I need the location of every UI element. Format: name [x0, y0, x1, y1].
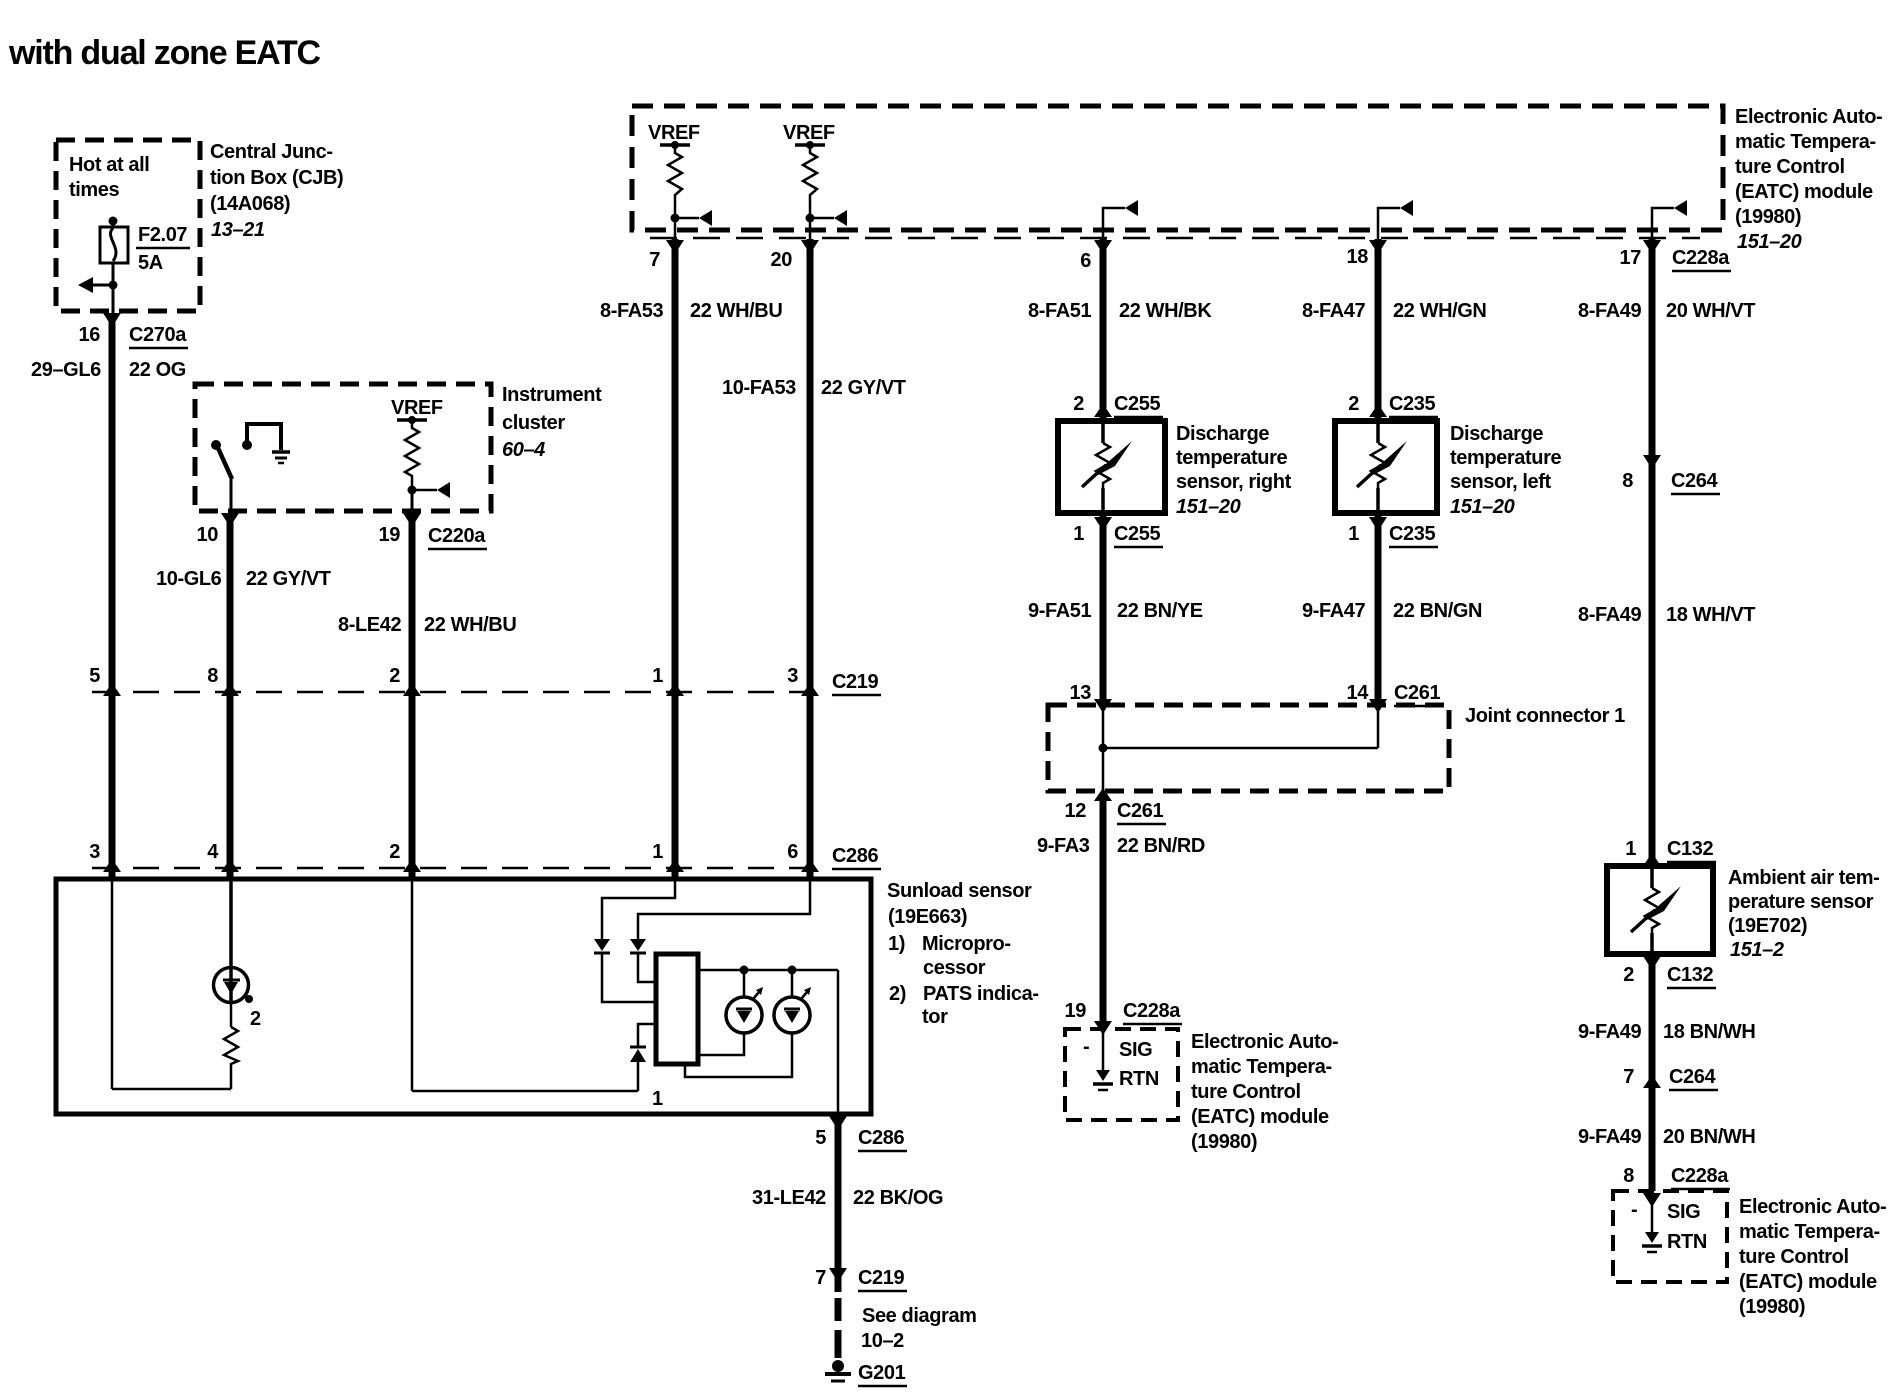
svg-text:5: 5	[89, 665, 100, 687]
svg-text:31-LE42: 31-LE42	[752, 1187, 826, 1209]
connector C255 pin 2	[1073, 393, 1163, 417]
svg-text:8-FA51: 8-FA51	[1028, 300, 1091, 322]
svg-text:7: 7	[649, 249, 660, 271]
svg-text:3: 3	[89, 841, 100, 863]
photodiode in sunload sensor	[214, 881, 262, 1030]
wire label 9-FA51 22 BN/YE	[1028, 600, 1203, 622]
svg-text:C261: C261	[1394, 682, 1440, 704]
svg-text:C132: C132	[1667, 838, 1713, 860]
wire 8-LE42 from VREF resistor	[403, 490, 421, 879]
wire 8-FA53 pin 7	[649, 218, 684, 879]
LED 2 (PATS indicator)	[685, 970, 811, 1077]
wires inside joint connector 1	[1099, 707, 1379, 791]
Sunload sensor label	[887, 880, 1039, 1028]
connector C264 pin 8	[1622, 455, 1720, 494]
connector C132 pin 1	[1625, 838, 1716, 866]
EATC pin 17 branch arrow	[1652, 200, 1687, 240]
LED supply rail	[698, 966, 838, 975]
svg-text:60–4: 60–4	[502, 439, 545, 461]
wire label 8-FA51 22 WH/BK	[1028, 300, 1212, 322]
connector C270a pin 16	[79, 324, 188, 348]
svg-text:13–21: 13–21	[211, 219, 265, 241]
resistor in sunload sensor	[224, 1002, 238, 1089]
microprocessor box	[652, 954, 698, 1110]
svg-text:10-GL6: 10-GL6	[156, 568, 222, 590]
svg-text:(EATC) module: (EATC) module	[1191, 1106, 1329, 1128]
Instrument cluster label	[502, 384, 602, 461]
wire 9-FA51	[1100, 515, 1107, 705]
connector C219 dashed line	[92, 671, 881, 695]
EATC module SIG RTN box (right)	[1613, 1191, 1727, 1282]
Discharge temperature sensor right box	[1058, 421, 1165, 513]
svg-text:perature sensor: perature sensor	[1728, 891, 1874, 913]
svg-text:tion Box (CJB): tion Box (CJB)	[210, 167, 343, 189]
svg-text:Hot at all: Hot at all	[69, 154, 149, 176]
svg-text:C255: C255	[1114, 393, 1160, 415]
svg-text:151–2: 151–2	[1730, 939, 1784, 961]
wire label 9-FA49 20 BN/WH	[1578, 1126, 1755, 1148]
svg-text:Electronic Auto-: Electronic Auto-	[1739, 1196, 1886, 1218]
svg-text:18: 18	[1347, 246, 1369, 268]
connector C261 pin 14	[1347, 682, 1443, 713]
svg-text:1: 1	[652, 1088, 663, 1110]
svg-text:10: 10	[197, 524, 219, 546]
svg-text:sensor, left: sensor, left	[1450, 471, 1552, 493]
connector C220a pins 10 and 19	[197, 524, 487, 549]
VREF resistor for pin 20	[783, 122, 847, 226]
svg-text:G201: G201	[858, 1362, 906, 1384]
svg-text:9-FA49: 9-FA49	[1578, 1126, 1641, 1148]
svg-text:22 BN/GN: 22 BN/GN	[1393, 600, 1482, 622]
svg-text:cluster: cluster	[502, 412, 565, 434]
wire 8-FA51 pin 6	[1080, 239, 1112, 421]
svg-text:Electronic Auto-: Electronic Auto-	[1191, 1031, 1338, 1053]
diode D2	[630, 939, 656, 982]
wire label 8-FA53 22 WH/BU	[600, 300, 782, 322]
connector C132 pin 2	[1623, 956, 1716, 988]
svg-text:8-LE42: 8-LE42	[338, 614, 401, 636]
svg-text:C132: C132	[1667, 964, 1713, 986]
svg-text:Electronic Auto-: Electronic Auto-	[1735, 106, 1882, 128]
signal return ground (center)	[1093, 1031, 1113, 1090]
wire 29-GL6 from CJB	[103, 285, 121, 879]
wire 9-FA47	[1375, 515, 1382, 705]
svg-text:C270a: C270a	[129, 324, 187, 346]
wire label 8-FA49 20 WH/VT	[1578, 300, 1755, 322]
wire label 31-LE42 22 BK/OG	[752, 1187, 943, 1209]
svg-text:9-FA49: 9-FA49	[1578, 1021, 1641, 1043]
svg-text:6: 6	[787, 841, 798, 863]
svg-text:13: 13	[1070, 682, 1092, 704]
dashed wire to other diagram	[838, 1272, 977, 1358]
svg-text:151–20: 151–20	[1450, 496, 1515, 518]
wire 8-FA49 pin 17	[1620, 239, 1661, 866]
connector C286 dashed line	[92, 845, 881, 869]
svg-text:2: 2	[1348, 393, 1359, 415]
Ambient air temperature sensor label	[1728, 867, 1879, 961]
svg-text:See diagram: See diagram	[862, 1305, 977, 1327]
svg-text:8: 8	[207, 665, 218, 687]
svg-text:1): 1)	[888, 933, 905, 955]
wire inside sunload from pin 1	[602, 881, 675, 939]
svg-text:8-FA47: 8-FA47	[1302, 300, 1365, 322]
VREF resistor for pin 7	[648, 122, 712, 226]
svg-text:(19E702): (19E702)	[1728, 915, 1807, 937]
svg-text:20: 20	[771, 249, 793, 271]
svg-text:2: 2	[389, 841, 400, 863]
diode D1	[594, 939, 656, 1002]
svg-text:1: 1	[1625, 838, 1636, 860]
svg-text:1: 1	[1348, 523, 1359, 545]
connector C228a pin 8	[1623, 1165, 1730, 1207]
svg-text:7: 7	[1623, 1066, 1634, 1088]
Joint connector 1 dashed box	[1048, 705, 1625, 791]
CJB output arrow to other circuits	[78, 277, 118, 293]
CJB label	[210, 141, 343, 241]
svg-text:2: 2	[389, 665, 400, 687]
svg-text:tor: tor	[922, 1006, 948, 1028]
EATC pin 6 branch arrow	[1103, 200, 1138, 240]
connector C264 pin 7	[1623, 1066, 1718, 1090]
svg-text:5: 5	[815, 1127, 826, 1149]
svg-text:F2.07: F2.07	[138, 224, 187, 246]
Central Junction Box (CJB) dashed box	[56, 140, 200, 311]
svg-text:Ambient air tem-: Ambient air tem-	[1728, 867, 1879, 889]
svg-text:12: 12	[1065, 800, 1087, 822]
svg-text:C261: C261	[1117, 800, 1163, 822]
svg-text:matic Tempera-: matic Tempera-	[1735, 131, 1876, 153]
svg-text:22 BN/RD: 22 BN/RD	[1117, 835, 1205, 857]
VREF resistor in instrument cluster	[391, 397, 450, 498]
EATC module label (center bottom)	[1191, 1031, 1338, 1153]
Instrument cluster dashed box	[195, 384, 491, 511]
svg-text:Joint connector 1: Joint connector 1	[1465, 705, 1625, 727]
svg-text:cessor: cessor	[923, 957, 986, 979]
wire 8-FA47 pin 18	[1347, 239, 1387, 421]
svg-text:9-FA51: 9-FA51	[1028, 600, 1091, 622]
svg-text:SIG: SIG	[1667, 1201, 1700, 1223]
svg-text:19: 19	[1065, 1000, 1087, 1022]
EATC module label (top right)	[1735, 106, 1882, 253]
svg-text:C235: C235	[1389, 393, 1435, 415]
Ambient air temperature sensor box	[1607, 866, 1713, 954]
C286 pin numbers 3 4 2 1 6	[89, 841, 798, 863]
svg-text:22 WH/BU: 22 WH/BU	[424, 614, 516, 636]
svg-text:-: -	[1083, 1036, 1089, 1058]
connector C235 pin 2	[1348, 393, 1438, 417]
svg-text:C219: C219	[858, 1267, 904, 1289]
svg-text:22 BN/YE: 22 BN/YE	[1117, 600, 1203, 622]
svg-text:2: 2	[1623, 964, 1634, 986]
connector C228a pin 19	[1065, 1000, 1182, 1035]
connector C261 pin 13	[1070, 682, 1112, 713]
svg-text:times: times	[69, 179, 120, 201]
svg-text:6: 6	[1080, 250, 1091, 272]
svg-text:PATS indica-: PATS indica-	[923, 983, 1039, 1005]
thermistor (discharge right)	[1082, 424, 1132, 510]
svg-text:C286: C286	[832, 845, 878, 867]
svg-text:17: 17	[1620, 247, 1642, 269]
connector C235 pin 1	[1348, 517, 1438, 547]
Sunload sensor box	[56, 879, 871, 1114]
wire inside sunload from pin 2 (8-LE42)	[412, 881, 638, 1091]
svg-text:(19980): (19980)	[1735, 206, 1801, 228]
svg-text:5A: 5A	[138, 252, 163, 274]
Discharge temperature sensor left label	[1450, 423, 1561, 518]
svg-text:4: 4	[207, 841, 219, 863]
svg-text:(14A068): (14A068)	[210, 193, 290, 215]
svg-text:10-FA53: 10-FA53	[722, 377, 796, 399]
svg-text:22 WH/GN: 22 WH/GN	[1393, 300, 1486, 322]
svg-text:Discharge: Discharge	[1450, 423, 1543, 445]
svg-text:C264: C264	[1671, 470, 1718, 492]
wire label 29-GL6 22 OG	[31, 359, 186, 381]
svg-text:9-FA47: 9-FA47	[1302, 600, 1365, 622]
svg-text:1: 1	[652, 841, 663, 863]
svg-text:Central Junc-: Central Junc-	[210, 141, 333, 163]
EATC module label (bottom right)	[1739, 1196, 1886, 1318]
wire label 8-FA49 18 WH/VT	[1578, 604, 1755, 626]
svg-text:16: 16	[79, 324, 101, 346]
svg-text:temperature: temperature	[1450, 447, 1561, 469]
svg-text:(19E663): (19E663)	[888, 906, 967, 928]
connector C228a dashed line (top)	[650, 237, 1700, 240]
svg-text:ture Control: ture Control	[1735, 156, 1845, 178]
svg-text:with dual zone EATC: with dual zone EATC	[8, 34, 321, 72]
wire label 9-FA49 18 BN/WH	[1578, 1021, 1755, 1043]
wire label 10-FA53 22 GY/VT	[722, 377, 906, 399]
diode D3	[630, 1024, 656, 1091]
svg-text:(19980): (19980)	[1739, 1296, 1805, 1318]
thermistor (ambient)	[1631, 869, 1681, 951]
svg-text:7: 7	[815, 1267, 826, 1289]
svg-text:9-FA3: 9-FA3	[1037, 835, 1090, 857]
svg-text:Instrument: Instrument	[502, 384, 602, 406]
svg-text:10–2: 10–2	[861, 1330, 904, 1352]
Discharge temperature sensor left box	[1335, 421, 1437, 513]
output wire to pin 5 C286 inside box	[837, 970, 840, 1114]
svg-text:2: 2	[250, 1008, 261, 1030]
connector C219 pin 7	[815, 1267, 907, 1291]
wire inside sunload from pin 3	[112, 881, 231, 1089]
signal return ground (right)	[1642, 1195, 1662, 1252]
svg-text:22 OG: 22 OG	[129, 359, 186, 381]
svg-text:18 BN/WH: 18 BN/WH	[1663, 1021, 1755, 1043]
svg-text:C228a: C228a	[1672, 247, 1730, 269]
svg-text:C220a: C220a	[428, 525, 486, 547]
svg-text:VREF: VREF	[783, 122, 835, 144]
wire 10-GL6 from switch	[221, 478, 239, 879]
svg-text:C228a: C228a	[1671, 1165, 1729, 1187]
switch in instrument cluster	[211, 422, 290, 479]
svg-text:C219: C219	[832, 671, 878, 693]
svg-text:Micropro-: Micropro-	[922, 933, 1011, 955]
wire label 8-LE42 22 WH/BU	[338, 614, 516, 636]
svg-text:C235: C235	[1389, 523, 1435, 545]
LED 1 (PATS indicator)	[698, 970, 763, 1055]
wire 31-LE42 below sunload box	[829, 1114, 847, 1272]
svg-text:(19980): (19980)	[1191, 1131, 1257, 1153]
svg-text:VREF: VREF	[648, 122, 700, 144]
svg-text:Discharge: Discharge	[1176, 423, 1269, 445]
EATC module dashed box (top)	[632, 106, 1723, 230]
svg-text:RTN: RTN	[1667, 1231, 1707, 1253]
svg-text:2: 2	[1073, 393, 1084, 415]
svg-text:22 GY/VT: 22 GY/VT	[821, 377, 906, 399]
svg-text:temperature: temperature	[1176, 447, 1287, 469]
connector C286 pin 5	[815, 1127, 907, 1151]
svg-text:C264: C264	[1669, 1066, 1716, 1088]
svg-text:-: -	[1631, 1199, 1637, 1221]
svg-text:RTN: RTN	[1119, 1068, 1159, 1090]
thermistor (discharge left)	[1357, 424, 1407, 510]
EATC pin 18 branch arrow	[1378, 200, 1413, 240]
wire label 10-GL6 22 GY/VT	[156, 568, 331, 590]
svg-text:VREF: VREF	[391, 397, 443, 419]
svg-text:(EATC) module: (EATC) module	[1735, 181, 1873, 203]
C286 wire junction chevrons	[103, 859, 819, 872]
svg-text:22 WH/BK: 22 WH/BK	[1119, 300, 1212, 322]
wire inside sunload from pin 6	[638, 881, 810, 939]
svg-text:ture Control: ture Control	[1739, 1246, 1849, 1268]
C219 pin numbers 5 8 2 1 3	[89, 665, 798, 687]
svg-text:151–20: 151–20	[1737, 231, 1802, 253]
svg-text:SIG: SIG	[1119, 1039, 1152, 1061]
svg-text:C228a: C228a	[1123, 1000, 1181, 1022]
svg-text:22 GY/VT: 22 GY/VT	[246, 568, 331, 590]
wire 9-FA3 22 BN/RD	[1037, 793, 1205, 1029]
svg-text:matic Tempera-: matic Tempera-	[1191, 1056, 1332, 1078]
connector C261 pin 12	[1065, 788, 1166, 824]
svg-text:151–20: 151–20	[1176, 496, 1241, 518]
wire 9-FA49 below ambient sensor	[1649, 954, 1656, 1191]
svg-text:1: 1	[1073, 523, 1084, 545]
svg-text:matic Tempera-: matic Tempera-	[1739, 1221, 1880, 1243]
svg-text:8: 8	[1622, 470, 1633, 492]
EATC module SIG RTN box (center)	[1065, 1029, 1178, 1120]
svg-text:1: 1	[652, 665, 663, 687]
ground G201	[825, 1360, 907, 1386]
svg-text:22 WH/BU: 22 WH/BU	[690, 300, 782, 322]
svg-text:3: 3	[787, 665, 798, 687]
C219 wire junction chevrons	[103, 683, 819, 696]
svg-text:8-FA49: 8-FA49	[1578, 300, 1641, 322]
svg-text:8-FA53: 8-FA53	[600, 300, 663, 322]
svg-text:8: 8	[1623, 1165, 1634, 1187]
connector C228a label (pin 17)	[1672, 247, 1731, 271]
svg-text:22 BK/OG: 22 BK/OG	[853, 1187, 943, 1209]
svg-text:14: 14	[1347, 682, 1370, 704]
svg-text:Sunload sensor: Sunload sensor	[887, 880, 1032, 902]
connector C255 pin 1	[1073, 517, 1163, 547]
fuse F2.07 5A	[100, 217, 190, 286]
svg-text:2): 2)	[889, 983, 906, 1005]
svg-text:sensor, right: sensor, right	[1176, 471, 1292, 493]
Discharge temperature sensor right label	[1176, 423, 1292, 518]
svg-text:18 WH/VT: 18 WH/VT	[1666, 604, 1755, 626]
svg-text:C255: C255	[1114, 523, 1160, 545]
svg-text:19: 19	[379, 524, 401, 546]
svg-text:8-FA49: 8-FA49	[1578, 604, 1641, 626]
svg-text:20 BN/WH: 20 BN/WH	[1663, 1126, 1755, 1148]
wire label 9-FA47 22 BN/GN	[1302, 600, 1482, 622]
svg-text:(EATC) module: (EATC) module	[1739, 1271, 1877, 1293]
svg-text:20 WH/VT: 20 WH/VT	[1666, 300, 1755, 322]
svg-text:C286: C286	[858, 1127, 904, 1149]
wire label 8-FA47 22 WH/GN	[1302, 300, 1486, 322]
svg-text:ture Control: ture Control	[1191, 1081, 1301, 1103]
svg-text:29–GL6: 29–GL6	[31, 359, 101, 381]
wire 10-FA53 pin 20	[771, 218, 819, 879]
